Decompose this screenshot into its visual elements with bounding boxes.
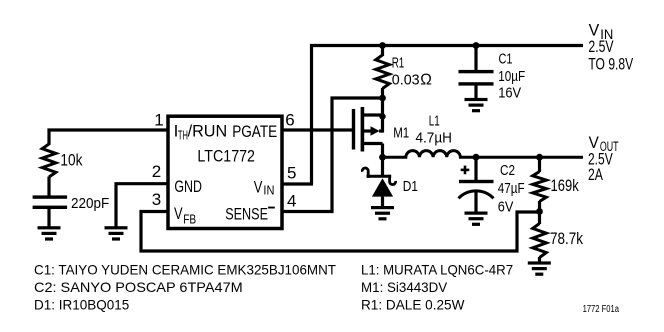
node dot switch node (379, 154, 386, 161)
svg-text:C2: SANYO POSCAP 6TPA47M: C2: SANYO POSCAP 6TPA47M (34, 279, 243, 295)
svg-text:47µF: 47µF (498, 180, 525, 197)
svg-text:PGATE: PGATE (232, 122, 277, 141)
op-amp U1 LTC1772 box (168, 116, 282, 228)
ground under 220pF (38, 226, 61, 240)
wire pin5 to VIN rail (282, 182, 313, 185)
label VFB pin3 (174, 204, 196, 227)
label VIN terminal (588, 22, 633, 74)
svg-text:Ω: Ω (420, 72, 432, 89)
label VOUT terminal (588, 134, 619, 184)
svg-text:V: V (589, 22, 600, 40)
svg-text:TH: TH (178, 127, 188, 142)
node dot R1 bottom sense (379, 95, 386, 102)
svg-text:3: 3 (152, 190, 161, 209)
svg-text:1: 1 (154, 110, 163, 129)
ground under D1 (371, 206, 394, 220)
svg-text:220pF: 220pF (71, 195, 109, 212)
svg-text:IN: IN (263, 182, 274, 197)
wire pin3 VFB feedback path (141, 212, 540, 252)
svg-text:2: 2 (152, 162, 161, 181)
svg-text:C1: TAIYO YUDEN CERAMIC EMK325: C1: TAIYO YUDEN CERAMIC EMK325BJ106MNT (34, 261, 336, 277)
svg-text:GND: GND (174, 177, 202, 196)
inductor L1 (383, 151, 584, 158)
plus sign C2 (461, 166, 470, 175)
svg-text:L1: L1 (429, 113, 440, 130)
ground under C2 (465, 212, 488, 226)
capacitor 220pF (33, 195, 68, 227)
wire pin6 PGATE to M1 gate (282, 128, 355, 131)
svg-text:169k: 169k (551, 176, 580, 195)
label ITH/RUN pin1 (174, 122, 228, 143)
label VIN pin5 (254, 177, 275, 197)
resistor 169k (533, 157, 547, 212)
svg-text:C1: C1 (499, 51, 513, 68)
ground under C1 (465, 98, 488, 112)
svg-text:16V: 16V (498, 84, 521, 101)
diode D1 schottky (362, 157, 395, 207)
svg-text:4.7µH: 4.7µH (416, 130, 452, 147)
svg-text:/RUN: /RUN (188, 122, 228, 141)
node dot C2 top (473, 154, 480, 161)
svg-text:L1: MURATA LQN6C-4R7: L1: MURATA LQN6C-4R7 (361, 261, 513, 277)
node dot M1 source tie (379, 113, 385, 119)
svg-text:78.7k: 78.7k (550, 229, 583, 248)
svg-text:LTC1772: LTC1772 (197, 147, 255, 166)
svg-text:M1: M1 (393, 124, 409, 141)
svg-text:C2: C2 (500, 162, 515, 179)
node dot divider mid (536, 208, 543, 215)
label SENSE- pin4 (225, 204, 275, 223)
svg-text:4: 4 (287, 192, 296, 211)
svg-text:SENSE: SENSE (225, 204, 268, 223)
capacitor C1 (459, 46, 494, 99)
transistor M1 PMOS (352, 98, 383, 157)
svg-text:2.5V: 2.5V (588, 38, 613, 56)
svg-text:FB: FB (183, 211, 196, 226)
wire top VIN rail (312, 46, 584, 185)
svg-text:V: V (174, 204, 183, 223)
ground under 78.7k (528, 261, 551, 275)
capacitor C2 polarized (459, 157, 494, 212)
svg-text:10µF: 10µF (498, 68, 525, 85)
svg-text:M1: Si3443DV: M1: Si3443DV (361, 279, 448, 295)
node dot C1 top (473, 42, 480, 49)
resistor R1 sense (376, 46, 390, 99)
svg-text:2A: 2A (588, 166, 603, 184)
wire pin4 SENSE path (282, 98, 383, 212)
svg-text:V: V (254, 177, 263, 196)
svg-text:V: V (589, 134, 599, 152)
svg-text:0.03: 0.03 (392, 72, 420, 89)
svg-text:R1: R1 (392, 55, 405, 72)
svg-text:R1: DALE 0.25W: R1: DALE 0.25W (361, 296, 465, 312)
svg-text:D1: IR10BQ015: D1: IR10BQ015 (34, 296, 129, 312)
node dot R1 top (379, 42, 386, 49)
wire pin1 ITH/RUN to 10k (49, 130, 168, 145)
label 0.03ohm (392, 72, 432, 89)
ground pin2 (105, 226, 128, 240)
svg-text:6: 6 (285, 110, 294, 129)
node dot divider top (536, 154, 543, 161)
wire 10k to 220pF (47, 177, 50, 197)
svg-text:5: 5 (287, 164, 296, 183)
svg-text:10k: 10k (60, 151, 82, 170)
svg-text:6V: 6V (498, 198, 514, 215)
svg-text:1772 F01a: 1772 F01a (583, 304, 620, 315)
wire pin2 GND (116, 184, 168, 227)
resistor 78.7k (533, 212, 547, 263)
svg-text:TO 9.8V: TO 9.8V (588, 55, 633, 73)
resistor 10k (42, 144, 56, 177)
svg-text:D1: D1 (403, 178, 418, 195)
